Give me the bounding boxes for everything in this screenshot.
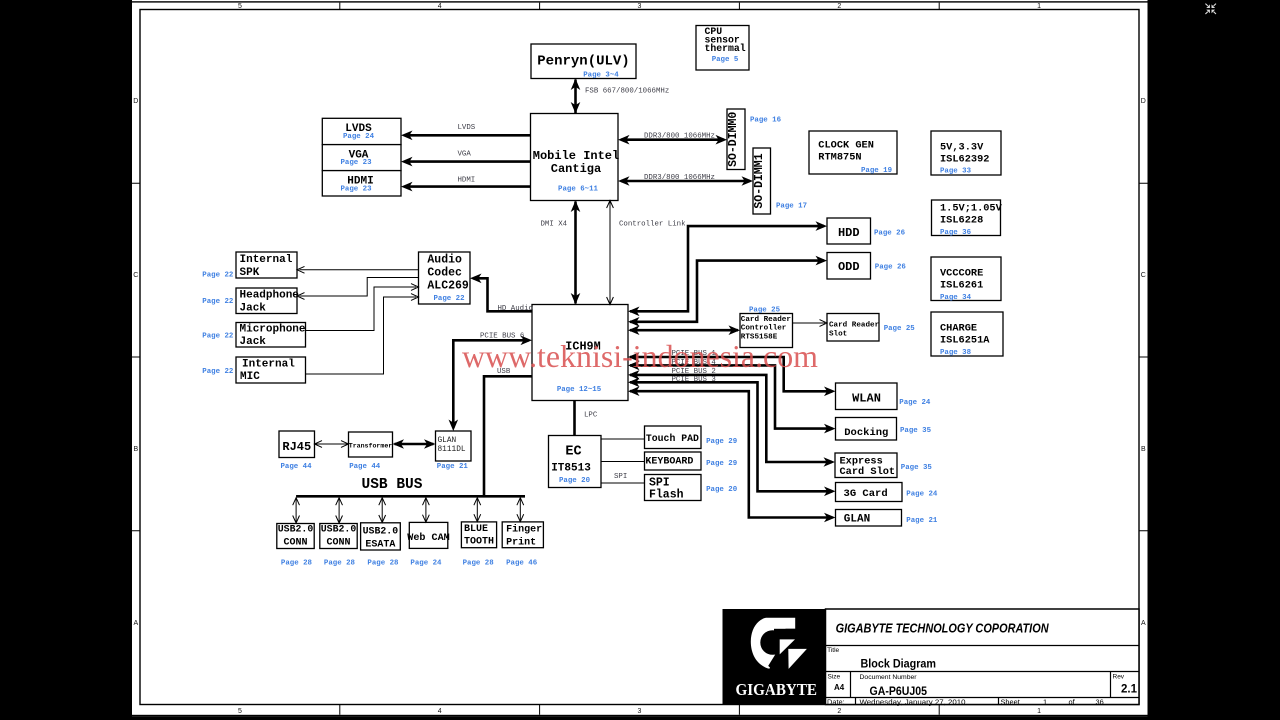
svg-text:GIGABYTE: GIGABYTE (736, 680, 818, 699)
svg-text:3G Card: 3G Card (844, 488, 888, 500)
svg-text:Page 29: Page 29 (706, 460, 737, 468)
wire Codec to Internal SPK (297, 266, 419, 273)
svg-text:ISL6251A: ISL6251A (940, 334, 990, 346)
wire DDR3 channel 1 (618, 174, 753, 186)
svg-text:B: B (1141, 446, 1146, 453)
wire Transformer to GLAN 8111DL (393, 439, 436, 449)
block Penryn(ULV) U_CPU (531, 44, 636, 80)
svg-text:Controller Link: Controller Link (619, 220, 686, 228)
svg-text:thermal: thermal (705, 43, 746, 54)
svg-text:Page 28: Page 28 (281, 560, 313, 568)
svg-text:Page 24: Page 24 (899, 399, 931, 407)
svg-text:Page 22: Page 22 (202, 272, 233, 280)
block Card Reader Controller RTS5158E (740, 307, 793, 348)
block BLUETOOTH (461, 522, 496, 568)
svg-text:DDR3/800 1066MHz: DDR3/800 1066MHz (644, 174, 715, 182)
svg-text:VCCCORE: VCCCORE (940, 267, 983, 279)
fullscreen icon top-right (1205, 4, 1216, 14)
svg-text:Page 22: Page 22 (202, 298, 233, 306)
svg-text:CLOCK GEN: CLOCK GEN (818, 140, 874, 152)
svg-text:5: 5 (238, 3, 242, 10)
svg-text:Page 35: Page 35 (901, 464, 933, 472)
svg-text:Page 20: Page 20 (559, 477, 591, 485)
svg-text:Block Diagram: Block Diagram (861, 657, 937, 671)
svg-text:Page 17: Page 17 (776, 203, 807, 211)
svg-text:Jack: Jack (240, 336, 267, 348)
block SPI Flash (645, 475, 738, 502)
svg-text:Page 23: Page 23 (340, 159, 372, 167)
block VGA (322, 145, 401, 171)
svg-text:RTM875N: RTM875N (818, 151, 861, 163)
svg-text:HDMI: HDMI (458, 177, 476, 185)
svg-text:Page 22: Page 22 (433, 295, 464, 303)
block ODD (827, 253, 906, 280)
svg-text:Web CAM: Web CAM (407, 532, 450, 544)
block USB2.0 CONN 1 (277, 524, 314, 568)
right row ticks (1139, 183, 1148, 531)
svg-text:GA-P6UJ05: GA-P6UJ05 (870, 684, 928, 698)
wire HD Audio (ICH9M to Codec) (470, 274, 533, 314)
wire to Card Reader Controller (628, 325, 740, 335)
block Docking (836, 418, 932, 441)
svg-text:USB2.0: USB2.0 (278, 525, 314, 536)
svg-text:SO-DIMM1: SO-DIMM1 (753, 153, 766, 208)
block ICH9M (southbridge) (532, 305, 628, 401)
GIGABYTE logo panel (723, 609, 826, 705)
svg-text:Page 22: Page 22 (202, 368, 233, 376)
svg-text:Page 16: Page 16 (750, 117, 782, 125)
logo large triangle (788, 649, 807, 669)
svg-text:Title: Title (827, 647, 839, 654)
wire Controller Link (607, 201, 686, 305)
wire USB drop to Finger Print (517, 498, 524, 522)
svg-text:GLAN: GLAN (844, 513, 870, 525)
logo G diagonal cut (768, 640, 789, 670)
block Web CAM (407, 522, 450, 567)
svg-text:Page 24: Page 24 (906, 490, 938, 498)
wire PCIE BUS 2 to Express Card Slot (628, 368, 835, 467)
svg-text:Jack: Jack (240, 302, 267, 314)
block Microphone Jack (202, 323, 306, 349)
svg-text:Page 20: Page 20 (706, 486, 738, 494)
wire EC to Touch PAD (601, 438, 645, 440)
svg-text:CONN: CONN (326, 538, 350, 549)
svg-text:Page 46: Page 46 (506, 560, 538, 568)
svg-text:CONN: CONN (283, 538, 307, 549)
block GLAN (right) (836, 510, 938, 527)
outer sheet top line (132, 1, 1148, 2)
svg-text:A4: A4 (834, 683, 845, 692)
wire SATA to HDD (628, 221, 827, 316)
logo G counter (760, 630, 785, 655)
svg-text:HD Audio: HD Audio (498, 305, 533, 313)
outer sheet bottom line (132, 715, 1148, 717)
svg-text:LVDS: LVDS (458, 124, 476, 132)
block RJ45 (279, 431, 315, 471)
svg-text:ODD: ODD (838, 260, 860, 274)
svg-text:ISL6228: ISL6228 (940, 214, 983, 226)
wire USB (ICH9M to USB BUS) (484, 368, 532, 496)
svg-text:5V,3.3V: 5V,3.3V (940, 142, 984, 154)
svg-text:Page 34: Page 34 (940, 294, 972, 302)
svg-text:GIGABYTE TECHNOLOGY COPORATION: GIGABYTE TECHNOLOGY COPORATION (836, 621, 1050, 636)
svg-text:USB2.0: USB2.0 (321, 525, 357, 536)
svg-text:1.5V;1.05V: 1.5V;1.05V (940, 203, 1003, 215)
block Finger Print (502, 522, 543, 568)
svg-text:3: 3 (638, 3, 642, 10)
block Audio Codec ALC269 (419, 252, 471, 304)
wire Internal MIC to Codec (306, 294, 419, 374)
svg-text:D: D (1141, 98, 1146, 105)
svg-text:A: A (133, 620, 138, 627)
svg-text:HDD: HDD (838, 226, 860, 240)
wire PCIE BUS 4 to Docking (628, 359, 836, 434)
svg-text:VGA: VGA (458, 151, 472, 159)
svg-text:Sheet: Sheet (1001, 697, 1020, 706)
inner frame border (140, 10, 1139, 705)
title block outline (826, 609, 1140, 705)
svg-text:SPK: SPK (240, 267, 260, 279)
svg-text:3: 3 (638, 708, 642, 715)
block EC IT8513 embedded controller (549, 436, 602, 488)
wire USB drop to ESATA (379, 498, 386, 523)
svg-text:USB BUS: USB BUS (362, 477, 423, 493)
wire USB drop to Web CAM (423, 498, 430, 523)
svg-text:2: 2 (837, 3, 841, 10)
svg-text:Internal: Internal (242, 358, 295, 370)
bottom ruler ticks (340, 705, 939, 715)
svg-text:GLAN: GLAN (438, 437, 457, 445)
block 3G Card (836, 483, 938, 502)
block Card Reader Slot (827, 314, 915, 342)
svg-text:DMI X4: DMI X4 (541, 220, 568, 228)
block Touch PAD (645, 426, 738, 449)
svg-text:2.1: 2.1 (1121, 684, 1138, 696)
wire EC to KEYBOARD (601, 461, 645, 463)
wire PCIE BUS 6 (ICH9M to GLAN 8111DL) (449, 333, 533, 432)
svg-text:ISL6261: ISL6261 (940, 279, 983, 291)
block SO-DIMM0 (727, 109, 782, 170)
wire LPC (ICH9M to EC) (575, 401, 598, 436)
block KEYBOARD (645, 452, 738, 470)
block 1.5V;1.05V ISL6228 (932, 200, 1003, 237)
svg-text:Mobile Intel: Mobile Intel (533, 149, 619, 163)
svg-text:Page 25: Page 25 (749, 307, 781, 315)
bottom black strip (132, 716, 1148, 720)
svg-text:2: 2 (837, 708, 841, 715)
wire USB drop to BLUETOOTH (474, 498, 481, 522)
svg-text:RJ45: RJ45 (282, 440, 311, 454)
wire Microphone Jack to Codec (306, 284, 419, 331)
svg-text:B: B (133, 446, 138, 453)
svg-text:Microphone: Microphone (240, 324, 306, 336)
wire LVDS (401, 124, 531, 140)
wire DMI X4 (Cantiga to ICH9M) (541, 201, 581, 305)
svg-text:Page 33: Page 33 (940, 168, 972, 176)
wire FSB (Penryn to Cantiga) (571, 79, 670, 114)
block Internal MIC (202, 357, 305, 383)
svg-text:Page 24: Page 24 (343, 133, 375, 141)
svg-text:Card Reader: Card Reader (741, 316, 792, 324)
svg-text:LPC: LPC (584, 412, 598, 420)
svg-text:Page 28: Page 28 (324, 560, 356, 568)
block VCCCORE ISL6261 (931, 257, 1001, 302)
svg-text:Page 26: Page 26 (874, 229, 906, 237)
svg-text:Controller: Controller (741, 325, 787, 333)
svg-text:Page 28: Page 28 (463, 560, 495, 568)
svg-text:1: 1 (1037, 708, 1041, 715)
wire USB drop to CONN1 (293, 498, 300, 523)
svg-text:MIC: MIC (240, 371, 260, 383)
svg-text:36: 36 (1096, 697, 1104, 706)
wire to GLAN (right) (628, 386, 836, 522)
svg-text:Card Reader: Card Reader (829, 322, 880, 330)
svg-text:Document Number: Document Number (860, 674, 918, 681)
svg-text:5: 5 (238, 708, 242, 715)
svg-text:Date:: Date: (827, 697, 845, 706)
svg-text:8111DL: 8111DL (438, 446, 466, 454)
block USB2.0 CONN 2 (320, 524, 357, 568)
svg-text:Cantiga: Cantiga (551, 162, 601, 176)
svg-text:Headphone: Headphone (240, 290, 300, 302)
svg-text:Touch PAD: Touch PAD (646, 433, 699, 445)
wire PCIE BUS 1 to WLAN (628, 350, 836, 396)
svg-text:Page 3~4: Page 3~4 (583, 72, 619, 80)
svg-text:Page 35: Page 35 (900, 427, 932, 435)
svg-text:1: 1 (1043, 697, 1047, 706)
svg-text:Internal: Internal (240, 254, 293, 266)
svg-text:KEYBOARD: KEYBOARD (645, 455, 693, 467)
svg-text:Page 6~11: Page 6~11 (558, 186, 598, 194)
svg-text:Flash: Flash (649, 488, 684, 501)
block USB2.0 ESATA (361, 523, 401, 568)
svg-text:CHARGE: CHARGE (940, 322, 977, 334)
svg-text:BLUE: BLUE (464, 524, 488, 535)
svg-text:Page 12~15: Page 12~15 (557, 386, 602, 394)
svg-text:USB2.0: USB2.0 (363, 527, 399, 538)
svg-text:Page 28: Page 28 (367, 560, 399, 568)
svg-text:DDR3/800 1066MHz: DDR3/800 1066MHz (644, 133, 715, 141)
svg-text:SPI: SPI (614, 473, 627, 481)
svg-text:Page 21: Page 21 (437, 463, 469, 471)
block CHARGE ISL6251A (931, 312, 1003, 357)
svg-text:4: 4 (438, 708, 442, 715)
svg-text:Card Slot: Card Slot (840, 466, 896, 478)
left row ticks (132, 183, 140, 531)
logo G main body (751, 618, 795, 669)
svg-text:PCIE BUS 3: PCIE BUS 3 (672, 376, 716, 384)
block GLAN 8111DL (436, 431, 472, 471)
svg-text:Page 36: Page 36 (940, 229, 972, 237)
svg-text:Page 5: Page 5 (712, 56, 739, 64)
svg-text:C: C (1141, 272, 1146, 279)
block SO-DIMM1 (753, 148, 807, 214)
block WLAN (836, 383, 931, 410)
svg-text:Transformer: Transformer (349, 443, 393, 450)
svg-text:Finger: Finger (506, 523, 542, 535)
svg-text:Page 26: Page 26 (875, 264, 907, 272)
wire SPI (EC to SPI Flash) (601, 473, 645, 483)
title block row lines (826, 646, 1140, 698)
svg-text:Page 25: Page 25 (884, 325, 916, 333)
svg-text:Page 29: Page 29 (706, 438, 737, 446)
svg-text:ISL62392: ISL62392 (940, 154, 989, 166)
title block column lines (851, 672, 1111, 705)
svg-text:D: D (133, 98, 138, 105)
svg-text:ESATA: ESATA (365, 540, 395, 551)
svg-text:Page 23: Page 23 (340, 185, 372, 193)
svg-text:Page 44: Page 44 (281, 463, 313, 471)
svg-text:Page 24: Page 24 (410, 560, 442, 568)
svg-text:Audio: Audio (427, 253, 462, 266)
svg-text:Codec: Codec (427, 266, 462, 279)
svg-text:4: 4 (438, 3, 442, 10)
svg-text:SO-DIMM0: SO-DIMM0 (727, 112, 740, 167)
wire HDMI (401, 177, 531, 192)
logo G slit (774, 629, 795, 640)
block Internal SPK (202, 252, 297, 280)
block Mobile Intel Cantiga (northbridge) (531, 114, 620, 201)
svg-text:C: C (133, 272, 138, 279)
wire RJ45 to Transformer (315, 441, 349, 448)
svg-text:of: of (1069, 697, 1076, 706)
block CLOCK GEN RTM875N (809, 131, 897, 175)
block HDMI (322, 171, 401, 196)
svg-text:Wednesday, January 27, 2010: Wednesday, January 27, 2010 (860, 697, 966, 706)
block Headphone Jack (202, 288, 299, 314)
logo small triangle (780, 639, 795, 654)
svg-text:www.teknisi-indonesia.com: www.teknisi-indonesia.com (462, 338, 818, 374)
svg-text:FSB 667/800/1066MHz: FSB 667/800/1066MHz (585, 88, 669, 96)
block LVDS (322, 118, 401, 144)
svg-text:Size: Size (828, 674, 841, 681)
svg-text:Penryn(ULV): Penryn(ULV) (537, 54, 629, 70)
svg-text:IT8513: IT8513 (551, 463, 591, 475)
svg-text:Print: Print (506, 536, 536, 548)
wire Card Reader Controller to Slot (793, 320, 828, 327)
svg-text:TOOTH: TOOTH (464, 537, 494, 548)
block Express Card Slot (835, 453, 932, 478)
wire VGA (401, 151, 531, 167)
svg-text:Page 19: Page 19 (861, 167, 892, 175)
wire USB drop to CONN2 (336, 498, 343, 523)
svg-text:Slot: Slot (829, 330, 847, 338)
svg-text:Page 38: Page 38 (940, 349, 972, 357)
wire Codec to Headphone Jack (297, 278, 419, 300)
wire DDR3 channel 0 (618, 133, 727, 145)
svg-text:Rev: Rev (1113, 674, 1125, 681)
wire SATA to ODD (628, 256, 827, 327)
svg-text:Page 21: Page 21 (906, 517, 938, 525)
svg-text:WLAN: WLAN (852, 392, 881, 406)
block CPU sensor thermal (696, 26, 749, 71)
wire USB BUS rail (296, 495, 525, 498)
svg-text:1: 1 (1037, 3, 1041, 10)
wire PCIE BUS 3 to 3G Card (628, 376, 836, 496)
svg-text:ALC269: ALC269 (427, 279, 469, 292)
top ruler ticks (340, 3, 939, 10)
svg-text:A: A (1141, 620, 1146, 627)
block HDD (827, 218, 906, 244)
svg-text:EC: EC (565, 445, 581, 460)
block 5V,3.3V ISL62392 (931, 131, 1001, 176)
block Transformer (349, 432, 393, 471)
svg-text:Page 44: Page 44 (349, 463, 381, 471)
svg-text:Page 22: Page 22 (202, 332, 233, 340)
svg-text:Docking: Docking (844, 427, 888, 439)
